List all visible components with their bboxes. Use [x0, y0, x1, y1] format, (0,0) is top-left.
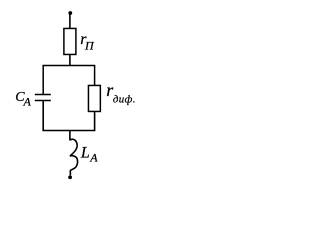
capacitor CА top plate [35, 93, 51, 95]
wire: capacitor to bottom rail [42, 100, 44, 130]
resistor rдиф body [88, 85, 100, 111]
wire: resistor rдиф to bottom rail [94, 111, 96, 130]
label rдиф. [106, 80, 136, 106]
label rп [80, 31, 95, 53]
wire: top rail with corners [43, 65, 94, 95]
svg-text:А: А [23, 95, 32, 109]
resistor rп body [64, 28, 76, 54]
node: top terminal [68, 11, 72, 15]
wire: resistor rп to top rail [69, 54, 71, 66]
label CА [15, 90, 31, 108]
wire: bottom rail to inductor [69, 130, 71, 140]
wire: bottom rail [42, 129, 95, 131]
capacitor CА bottom plate [35, 99, 51, 101]
wire: top terminal to resistor rп [69, 13, 71, 28]
svg-text:диф.: диф. [113, 93, 136, 105]
svg-text:L: L [80, 144, 90, 161]
inductor LА coil [70, 139, 78, 175]
node: bottom terminal [68, 175, 72, 179]
svg-text:П: П [84, 39, 95, 53]
svg-text:А: А [89, 151, 98, 165]
label LА [80, 144, 98, 164]
